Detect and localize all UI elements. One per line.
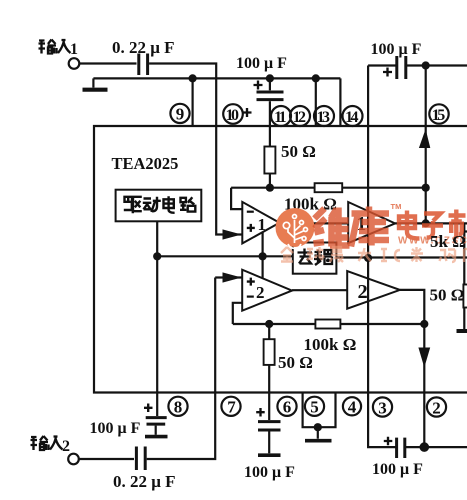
svg-text:0. 22 μ F: 0. 22 μ F [112,38,175,57]
capacitor C2 100uF (pin11) [269,78,271,90]
node C2 branch [266,74,274,82]
svg-text:100 μ F: 100 μ F [371,41,422,58]
svg-text:TM: TM [391,202,402,211]
op-amp A2 (+2) [242,270,292,311]
resistor R1 50 ohm [264,147,275,174]
svg-text:4: 4 [348,398,357,417]
svg-text:8: 8 [174,398,183,417]
pin 3 [373,397,392,417]
svg-text:2: 2 [358,281,368,303]
decoupling box 去耦 [293,243,337,274]
pin 9 [170,104,189,124]
wire amp1 out to A3 [280,222,349,224]
pin 13 [314,106,334,126]
pins 4,5 ground [303,393,336,428]
arrow down output2 [418,348,430,368]
decoupling/pin3 rail [367,66,369,393]
resistor R2 100k [315,183,343,192]
capacitor C1 0.22uF [139,54,148,76]
pin 4 [343,397,361,416]
pin15 wire with up arrow [425,66,427,224]
pin 10 [223,104,243,124]
right edge resistor R6 50 ohm (clipped) [463,285,467,308]
node output junction [420,442,430,452]
pin 12 [290,106,310,126]
svg-text:100k Ω: 100k Ω [304,335,357,354]
feedback line amp1 [231,187,426,189]
svg-text:100 μ F: 100 μ F [236,55,287,72]
pin 8 [168,397,187,417]
svg-text:1: 1 [258,215,267,234]
pin 3 wire to C7 [368,393,396,448]
wire input2 arrow [215,276,242,278]
top bias rail [93,77,340,79]
svg-text:50 Ω: 50 Ω [278,353,313,372]
svg-text:2: 2 [432,398,441,417]
amp2 feedback to inverting input [233,303,424,324]
capacitor C5 0.22uF [136,447,145,471]
input1 terminal [69,58,80,69]
svg-text:0. 22 μ F: 0. 22 μ F [113,472,176,491]
wire amp2 out to A4 [292,289,347,291]
right edge bar [457,329,467,333]
pin 6 [277,397,296,417]
wire decoupling to rail and off right edge [336,256,467,258]
output ch2 corner [400,290,424,447]
svg-text:100 μ F: 100 μ F [244,464,295,481]
wire R4 to pin6 [268,365,270,393]
wire to pin 13 [315,78,317,126]
svg-text:100 μ F: 100 μ F [372,461,423,478]
WATERMARK [276,202,467,262]
watermark logo circle [276,208,315,247]
right edge wire down [464,223,467,284]
capacitor C6 100uF (pin 6) with ground [268,393,270,421]
capacitor C3 100uF (top right) [368,64,396,66]
pin 15 [429,104,448,124]
node fb1/pin15 [422,184,430,192]
power amp A4 (2) [347,271,400,309]
wire bias to amp1 [262,232,264,257]
svg-text:5: 5 [310,398,319,417]
wire input2 to C5 [79,458,134,460]
svg-text:5k Ω: 5k Ω [430,232,466,251]
wire to pin 14 [339,78,341,126]
ground (input1) [92,78,94,87]
wire drive box down [156,221,158,392]
svg-text:2: 2 [256,283,265,302]
node decoupling [364,254,372,262]
node out2 [420,320,428,328]
resistor R3 100k [315,320,340,329]
capacitor C4 100uF (pin 8) with ground [156,393,158,417]
op-amp A1 (+1) [242,202,279,244]
svg-text:50 Ω: 50 Ω [281,142,316,161]
wire C2 to R1 [269,101,271,146]
wire C5 up to amp2 [147,278,216,460]
wire C1 to corner, down to amp1 input [149,64,242,235]
svg-text:100 μ F: 100 μ F [90,420,141,437]
node bias amps [259,252,267,260]
input2 terminal [68,454,79,465]
wire bias to amp2 [262,256,264,278]
node amp1 feedback [266,184,274,192]
IC box TEA2025 [94,126,467,393]
svg-text:9: 9 [176,105,185,124]
node C3 right [422,61,430,69]
bias line [157,255,293,257]
svg-text:TEA2025: TEA2025 [112,154,179,173]
pin 5 [305,397,324,417]
svg-text:3: 3 [378,398,387,417]
power amp A3 (1) [348,202,395,243]
resistor R4 50 ohm [268,324,270,339]
capacitor C7 100uF (output) [397,438,405,458]
svg-text:1: 1 [70,41,78,58]
svg-text:6: 6 [283,398,292,417]
label 输入2 (Input 2) [31,436,63,450]
output line ch1 [395,222,467,224]
arrow into amp1 [223,229,242,239]
watermark 维库 [314,207,390,247]
pin 2 [427,397,446,417]
node out1/pin15 [422,219,430,227]
wire to amp1 inverting input [231,188,242,209]
plus pin10 [243,108,252,117]
svg-text:2: 2 [62,438,70,455]
svg-text:50 Ω: 50 Ω [430,286,465,305]
pin 11 [271,106,291,126]
wire R1 to node [269,174,271,188]
wire input1 to C1 [79,62,136,64]
label 输入1 (Input 1) [39,40,71,54]
svg-text:7: 7 [227,398,236,417]
node pin9 branch [189,74,197,82]
pin 7 [221,397,240,417]
pin 14 [343,106,363,126]
drive circuit box 驱动电路 [116,190,202,222]
node pin13 branch [312,74,320,82]
node amp2 feedback [265,320,273,328]
watermark 电子市场 [399,210,466,239]
watermark slogan row [281,247,467,262]
node bias [153,252,161,260]
wire to pin 9 [192,78,194,126]
